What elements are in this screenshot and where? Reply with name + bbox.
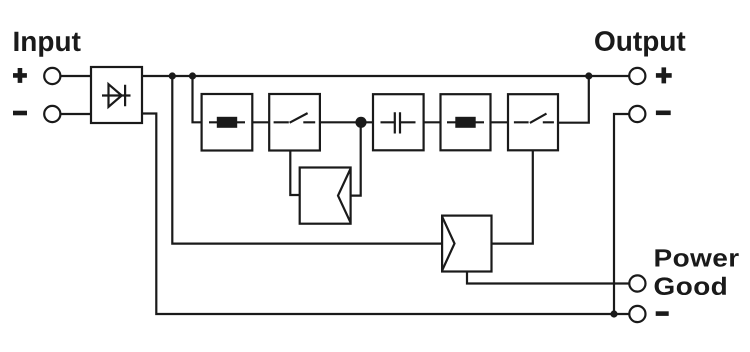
wire U2 right up to S2 bottom xyxy=(492,150,533,243)
wire S2 right up to top rail xyxy=(558,76,589,123)
driver U1 xyxy=(300,168,351,224)
switch block S2 xyxy=(508,94,558,150)
wire F1 to S1 xyxy=(252,121,269,123)
label Input xyxy=(14,32,80,57)
wire input- to rectifier xyxy=(60,113,91,115)
wire output- down to bottom rail xyxy=(614,114,629,314)
chevron in U2 xyxy=(442,217,454,271)
wire node A down and right to driver U2 xyxy=(172,76,442,244)
node dot E xyxy=(610,310,617,317)
label Good xyxy=(655,277,726,295)
rectifier block D1 xyxy=(91,67,142,123)
wire input+ to rectifier xyxy=(60,75,91,77)
wire S1 to C1 xyxy=(320,121,373,123)
label Output xyxy=(595,31,685,56)
input + terminal xyxy=(44,68,60,84)
driver U2 xyxy=(442,216,491,272)
wire F2 to S2 xyxy=(491,121,509,123)
fuse element in F1 xyxy=(209,121,245,123)
input + sign xyxy=(13,68,27,83)
capacitor symbol in C1 xyxy=(381,112,416,133)
filter block F2 xyxy=(441,94,491,150)
power good - sign xyxy=(656,311,669,316)
power good terminal xyxy=(629,275,645,291)
output - sign xyxy=(656,111,671,116)
output + sign xyxy=(656,67,672,83)
output - terminal xyxy=(629,106,645,122)
switch block S1 xyxy=(269,94,320,151)
chevron in U1 xyxy=(338,169,351,223)
wire U2 bottom to Power Good terminal xyxy=(467,272,629,284)
node dot C xyxy=(585,72,592,79)
power good minus terminal xyxy=(629,306,645,322)
diode symbol in D1 xyxy=(102,84,131,107)
filter block F1 xyxy=(202,94,253,151)
capacitor block C1 xyxy=(373,94,424,150)
input - terminal xyxy=(44,106,60,122)
node dot D xyxy=(355,117,366,128)
input - sign xyxy=(13,111,27,116)
wire node B down into filter F1 xyxy=(193,76,202,122)
top + rail wire xyxy=(142,75,629,77)
switch contact in S1 xyxy=(274,113,316,123)
wire rectifier minus to bottom rail xyxy=(142,114,629,315)
wire S1 bottom down to driver U1 xyxy=(290,151,299,196)
label Power xyxy=(655,249,738,266)
fuse element in F2 xyxy=(447,121,484,123)
node dot A xyxy=(169,72,176,79)
wire node D down to U1 right xyxy=(351,122,361,195)
node dot B xyxy=(189,72,196,79)
wire C1 to F2 xyxy=(424,121,441,123)
output + terminal xyxy=(629,68,645,84)
switch contact in S2 xyxy=(514,114,554,123)
